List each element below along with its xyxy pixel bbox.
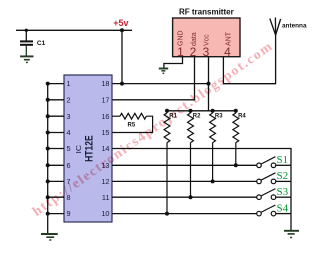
svg-text:6: 6: [67, 161, 71, 170]
svg-text:ANT: ANT: [225, 31, 232, 46]
svg-text:data: data: [191, 32, 198, 46]
svg-text:5: 5: [67, 144, 71, 153]
svg-text:9: 9: [67, 209, 71, 218]
svg-text:S1: S1: [277, 154, 289, 166]
svg-text:RF transmitter: RF transmitter: [179, 7, 234, 16]
svg-text:11: 11: [102, 193, 110, 202]
switch S3: [112, 186, 291, 200]
svg-text:R2: R2: [193, 114, 201, 120]
svg-text:S3: S3: [277, 186, 289, 198]
ground (switch common): [284, 231, 299, 238]
svg-text:3: 3: [67, 112, 71, 121]
svg-text:12: 12: [101, 177, 109, 186]
switch S2: [112, 170, 291, 184]
svg-text:17: 17: [101, 95, 109, 104]
ground (RF pin1): [159, 69, 168, 74]
svg-text:HT12E: HT12E: [84, 135, 96, 162]
wire left bus: [47, 84, 49, 234]
svg-text:1: 1: [67, 79, 71, 88]
svg-text:16: 16: [101, 112, 109, 121]
wire pin14 to switch common: [112, 149, 291, 231]
resistor R3: [210, 111, 216, 182]
svg-text:S2: S2: [277, 170, 289, 182]
switch S4: [112, 202, 291, 216]
capacitor C1: [20, 30, 46, 56]
node C1 junction on rail: [25, 29, 28, 32]
switch S1: [112, 154, 291, 168]
svg-text:antenna: antenna: [282, 22, 307, 29]
wires pins 1-9 to bus: [48, 84, 64, 214]
svg-text:GND: GND: [178, 30, 185, 46]
node +5v junction on rail: [120, 28, 124, 32]
node junctions pins 1-9 on ground bus: [46, 82, 50, 216]
wire RF pin4 ANT to antenna: [223, 35, 275, 84]
svg-text:R4: R4: [238, 114, 246, 120]
wire +5v drop to pin18: [121, 30, 123, 83]
IC U1 HT12E encoder: [64, 75, 112, 222]
wire pin18 to +5v/Vcc: [112, 83, 209, 85]
wire rail of resistors: [167, 110, 236, 112]
svg-text:S4: S4: [277, 202, 289, 214]
svg-text:2: 2: [67, 95, 71, 104]
RF transmitter module U2: [173, 18, 240, 57]
svg-text:IC: IC: [74, 144, 83, 153]
svg-text:R5: R5: [128, 123, 136, 129]
svg-text:15: 15: [101, 128, 109, 137]
svg-text:+5v: +5v: [113, 18, 128, 28]
wire +5v rail: [16, 29, 132, 31]
resistor R1: [164, 111, 170, 214]
resistor R5 loop pins 16-15: [112, 113, 153, 132]
svg-text:C1: C1: [37, 40, 46, 47]
resistor R4: [233, 111, 239, 166]
ground (below C1): [20, 56, 33, 62]
svg-text:R3: R3: [215, 114, 223, 120]
node junction +5v drop / pin18 wire: [120, 82, 124, 86]
svg-text:10: 10: [101, 209, 109, 218]
wire RF pin3 Vcc down to resistor rail: [208, 57, 210, 111]
node junction Vcc line / pin18 wire: [207, 82, 211, 86]
RF transmitter pin numbers 1-4 and pin labels GND/data/Vcc/ANT: [177, 30, 232, 58]
svg-text:4: 4: [67, 128, 71, 137]
wire RF pin1 to ground: [164, 57, 183, 68]
svg-text:18: 18: [101, 79, 109, 88]
antenna symbol: [270, 18, 281, 36]
svg-text:Vcc: Vcc: [204, 34, 211, 46]
wire RF pin2 data to pin17: [112, 57, 195, 100]
IC pin numbers 1-9 and 18-10: [67, 79, 110, 218]
resistor R2: [188, 111, 194, 197]
ground (left bus): [41, 234, 58, 240]
